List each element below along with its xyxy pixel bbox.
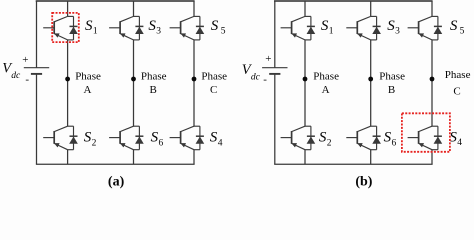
- svg-text:S1: S1: [321, 18, 334, 37]
- S2a gate lead wire: [43, 137, 54, 139]
- S5b collector diagonal: [419, 16, 432, 21]
- S6b gate lead wire: [346, 137, 357, 139]
- S1b collector diagonal: [292, 16, 305, 21]
- S3b emitter diagonal: [357, 34, 370, 40]
- svg-text:Phase: Phase: [75, 71, 101, 83]
- S2a collector diagonal: [54, 126, 67, 131]
- S5b gate lead wire: [408, 27, 419, 29]
- svg-text:Phase: Phase: [445, 69, 471, 81]
- svg-text:S1: S1: [85, 18, 98, 37]
- DC source wire lower segment (b): [274, 74, 276, 164]
- svg-text:(a): (a): [108, 174, 125, 189]
- S1a emitter diagonal: [54, 34, 67, 40]
- S4b diode cathode bar: [434, 135, 442, 137]
- phase node A junction dot (a): [65, 77, 70, 82]
- leg 3 wire: top rail to upper switch (b): [431, 1, 433, 16]
- svg-text:Phase: Phase: [313, 71, 339, 83]
- S5b diode triangle: [434, 27, 442, 33]
- leg 2 wire: lower switch to bottom rail (a): [133, 150, 135, 165]
- phase node C junction dot (b): [430, 77, 435, 82]
- S6a diode cathode bar: [135, 135, 143, 137]
- S4a gate lead wire: [170, 137, 181, 139]
- switch S2b: IGBT transistor with anti-parallel diode: [281, 126, 315, 150]
- S1b emitter diagonal: [292, 34, 305, 40]
- svg-text:B: B: [150, 84, 157, 96]
- S4a diode cathode bar: [196, 135, 204, 137]
- S4a emitter arrow: [181, 143, 186, 147]
- battery Vdc positive plate (long) (b): [262, 67, 287, 69]
- S4b gate bar: [418, 131, 420, 144]
- S6b diode triangle: [373, 137, 381, 143]
- svg-text:S2: S2: [319, 130, 332, 149]
- S6a gate lead wire: [109, 137, 120, 139]
- S2a diode branch wire: [73, 126, 75, 150]
- phase node B junction dot (b): [368, 77, 373, 82]
- switch S3a: IGBT transistor with anti-parallel diode: [109, 16, 143, 40]
- negative DC bus rail (bottom) (a): [36, 163, 195, 165]
- red dashed highlight box around switch S1 (a): [52, 13, 79, 42]
- S2a emitter diagonal: [54, 143, 67, 149]
- S6a collector diagonal: [120, 126, 133, 131]
- svg-text:C: C: [210, 84, 217, 96]
- positive DC bus rail (top) (b): [274, 0, 433, 2]
- S3a gate bar: [119, 21, 121, 34]
- S1b gate bar: [291, 21, 293, 34]
- S3a emitter arrow: [120, 34, 125, 38]
- S1a emitter arrow: [55, 34, 60, 38]
- S4a emitter diagonal: [181, 143, 194, 149]
- switch S6a: IGBT transistor with anti-parallel diode: [109, 126, 143, 150]
- S1b diode triangle: [307, 27, 315, 33]
- leg 1 wire: top rail to upper switch (b): [304, 1, 306, 16]
- S1a gate bar: [53, 21, 55, 34]
- S1a diode branch wire: [73, 16, 75, 40]
- leg 1 wire: upper switch through phase node to lower switch (b): [304, 40, 306, 126]
- svg-text:-: -: [25, 73, 29, 85]
- S2a emitter arrow: [55, 143, 60, 147]
- S6a diode branch wire: [138, 126, 140, 150]
- S4a collector-to-diode top jog wire: [194, 125, 200, 127]
- S2b diode branch wire: [310, 126, 312, 150]
- S5b emitter arrow: [419, 34, 424, 38]
- svg-text:A: A: [322, 84, 330, 96]
- S2b emitter-to-diode bottom jog wire: [305, 149, 311, 151]
- svg-text:Vdc: Vdc: [242, 62, 261, 83]
- svg-text:+: +: [265, 53, 271, 65]
- battery Vdc positive plate (long) (a): [24, 67, 49, 69]
- S3b diode cathode bar: [373, 25, 381, 27]
- leg 2 wire: lower switch to bottom rail (b): [370, 150, 372, 165]
- S5a diode branch wire: [199, 16, 201, 40]
- S6b emitter-to-diode bottom jog wire: [371, 149, 377, 151]
- switch S3b: IGBT transistor with anti-parallel diode: [346, 16, 380, 40]
- DC source wire upper segment (a): [36, 1, 38, 68]
- S6b collector-to-diode top jog wire: [371, 125, 377, 127]
- switch S4a: IGBT transistor with anti-parallel diode: [170, 126, 204, 150]
- S1b diode cathode bar: [307, 25, 315, 27]
- S4b emitter diagonal: [419, 143, 432, 149]
- S2b diode triangle: [307, 137, 315, 143]
- S1a collector-to-diode top jog wire: [68, 15, 74, 17]
- S5b collector-to-diode top jog wire: [432, 15, 438, 17]
- S2a collector-to-diode top jog wire: [68, 125, 74, 127]
- svg-text:S5: S5: [211, 18, 226, 37]
- S1b gate lead wire: [281, 27, 292, 29]
- S5a diode triangle: [196, 27, 204, 33]
- S3a diode triangle: [136, 27, 144, 33]
- S4b diode branch wire: [437, 126, 439, 150]
- S2b emitter arrow: [292, 143, 297, 147]
- svg-text:S5: S5: [450, 18, 465, 37]
- S1b emitter-to-diode bottom jog wire: [305, 39, 311, 41]
- S2b collector-to-diode top jog wire: [305, 125, 311, 127]
- svg-text:B: B: [388, 84, 395, 96]
- S3a collector diagonal: [120, 16, 133, 21]
- S2b emitter diagonal: [292, 143, 305, 149]
- switch S1a: IGBT transistor with anti-parallel diode: [43, 16, 77, 40]
- phase node C junction dot (a): [192, 77, 197, 82]
- S2b gate bar: [291, 131, 293, 144]
- S6b diode cathode bar: [373, 135, 381, 137]
- phase node A junction dot (b): [303, 77, 308, 82]
- svg-text:S6: S6: [151, 130, 164, 149]
- negative DC bus rail (bottom) (b): [274, 163, 432, 165]
- S1a collector diagonal: [54, 16, 67, 21]
- S5a emitter arrow: [181, 34, 186, 38]
- switch S2a: IGBT transistor with anti-parallel diode: [43, 126, 77, 150]
- battery Vdc negative plate (short) (b): [269, 73, 280, 75]
- S6a gate bar: [119, 131, 121, 144]
- S2b collector diagonal: [292, 126, 305, 131]
- S1a diode triangle: [70, 27, 78, 33]
- S6a emitter arrow: [120, 143, 125, 147]
- S3b collector-to-diode top jog wire: [371, 15, 377, 17]
- S6a collector-to-diode top jog wire: [134, 125, 140, 127]
- svg-text:Phase: Phase: [201, 71, 227, 83]
- S4b collector diagonal: [419, 126, 432, 131]
- S5a collector-to-diode top jog wire: [194, 15, 200, 17]
- svg-text:S2: S2: [84, 130, 97, 149]
- S3b collector diagonal: [357, 16, 370, 21]
- S6b emitter arrow: [358, 143, 363, 147]
- S1a emitter-to-diode bottom jog wire: [68, 39, 74, 41]
- S2b gate lead wire: [281, 137, 292, 139]
- S4b gate lead wire: [408, 137, 419, 139]
- battery Vdc negative plate (short) (a): [31, 73, 42, 75]
- S5b gate bar: [418, 21, 420, 34]
- svg-text:Phase: Phase: [141, 71, 167, 83]
- svg-text:Phase: Phase: [379, 71, 405, 83]
- S3a diode cathode bar: [135, 25, 143, 27]
- svg-text:-: -: [263, 74, 267, 86]
- switch S4b: IGBT transistor with anti-parallel diode: [408, 126, 442, 150]
- S1a gate lead wire: [43, 27, 54, 29]
- leg 2 wire: upper switch through phase node to lower switch (a): [133, 40, 135, 126]
- switch S5b: IGBT transistor with anti-parallel diode: [408, 16, 442, 40]
- positive DC bus rail (top) (a): [36, 0, 195, 2]
- S5b emitter diagonal: [419, 34, 432, 40]
- DC source wire lower segment (a): [36, 74, 38, 164]
- leg 3 wire: lower switch to bottom rail (b): [431, 150, 433, 165]
- S2a diode cathode bar: [70, 135, 78, 137]
- S1a diode cathode bar: [70, 25, 78, 27]
- leg 1 wire: lower switch to bottom rail (b): [304, 150, 306, 165]
- leg 3 wire: upper switch through phase node to lower switch (a): [193, 40, 195, 126]
- S6b emitter diagonal: [357, 143, 370, 149]
- S3b gate bar: [356, 21, 358, 34]
- S5a collector diagonal: [181, 16, 194, 21]
- svg-text:S6: S6: [384, 130, 397, 149]
- S3a diode branch wire: [138, 16, 140, 40]
- S3b gate lead wire: [346, 27, 357, 29]
- svg-text:A: A: [84, 84, 92, 96]
- S2b diode cathode bar: [307, 135, 315, 137]
- S4a diode triangle: [196, 137, 204, 143]
- leg 1 wire: top rail to upper switch (a): [67, 1, 69, 16]
- svg-text:S3: S3: [148, 18, 161, 37]
- svg-text:(b): (b): [355, 174, 372, 189]
- S5b diode cathode bar: [434, 25, 442, 27]
- S4a gate bar: [180, 131, 182, 144]
- S5a gate lead wire: [170, 27, 181, 29]
- switch S1b: IGBT transistor with anti-parallel diode: [281, 16, 315, 40]
- S2a gate bar: [53, 131, 55, 144]
- svg-text:S4: S4: [210, 130, 223, 149]
- svg-text:S3: S3: [387, 18, 400, 37]
- S5a emitter diagonal: [181, 34, 194, 40]
- S6a emitter diagonal: [120, 143, 133, 149]
- S2a emitter-to-diode bottom jog wire: [68, 149, 74, 151]
- svg-text:Vdc: Vdc: [2, 61, 21, 82]
- S3b emitter arrow: [358, 34, 363, 38]
- S4a emitter-to-diode bottom jog wire: [194, 149, 200, 151]
- switch S5a: IGBT transistor with anti-parallel diode: [170, 16, 204, 40]
- leg 2 wire: top rail to upper switch (b): [370, 1, 372, 16]
- S3b emitter-to-diode bottom jog wire: [371, 39, 377, 41]
- S5a emitter-to-diode bottom jog wire: [194, 39, 200, 41]
- S1b collector-to-diode top jog wire: [305, 15, 311, 17]
- svg-text:C: C: [453, 85, 460, 97]
- S5a diode cathode bar: [196, 25, 204, 27]
- S5b emitter-to-diode bottom jog wire: [432, 39, 438, 41]
- S3b diode triangle: [373, 27, 381, 33]
- S1b emitter arrow: [292, 34, 297, 38]
- red dashed highlight box around switch S4 (b): [402, 113, 450, 152]
- leg 3 wire: lower switch to bottom rail (a): [193, 150, 195, 165]
- svg-text:S4: S4: [449, 129, 462, 148]
- S6b diode branch wire: [376, 126, 378, 150]
- S5a gate bar: [180, 21, 182, 34]
- leg 1 wire: upper switch through phase node to lower switch (a): [67, 40, 69, 126]
- DC source wire upper segment (b): [274, 1, 276, 68]
- svg-text:+: +: [22, 54, 28, 66]
- leg 3 wire: upper switch through phase node to lower switch (b): [431, 40, 433, 126]
- S6b collector diagonal: [357, 126, 370, 131]
- S4a collector diagonal: [181, 126, 194, 131]
- phase node B junction dot (a): [131, 77, 136, 82]
- S4a diode branch wire: [199, 126, 201, 150]
- leg 1 wire: lower switch to bottom rail (a): [67, 150, 69, 165]
- leg 2 wire: upper switch through phase node to lower switch (b): [370, 40, 372, 126]
- leg 2 wire: top rail to upper switch (a): [133, 1, 135, 16]
- S6b gate bar: [356, 131, 358, 144]
- leg 3 wire: top rail to upper switch (a): [193, 1, 195, 16]
- S3a collector-to-diode top jog wire: [134, 15, 140, 17]
- S3a emitter diagonal: [120, 34, 133, 40]
- S6a diode triangle: [136, 137, 144, 143]
- S4b emitter-to-diode bottom jog wire: [432, 149, 438, 151]
- S5b diode branch wire: [437, 16, 439, 40]
- switch S6b: IGBT transistor with anti-parallel diode: [346, 126, 380, 150]
- S4b emitter arrow: [419, 143, 424, 147]
- S1b diode branch wire: [310, 16, 312, 40]
- S3a emitter-to-diode bottom jog wire: [134, 39, 140, 41]
- S2a diode triangle: [70, 137, 78, 143]
- S3b diode branch wire: [376, 16, 378, 40]
- S4b collector-to-diode top jog wire: [432, 125, 438, 127]
- S3a gate lead wire: [109, 27, 120, 29]
- S6a emitter-to-diode bottom jog wire: [134, 149, 140, 151]
- S4b diode triangle: [434, 137, 442, 143]
